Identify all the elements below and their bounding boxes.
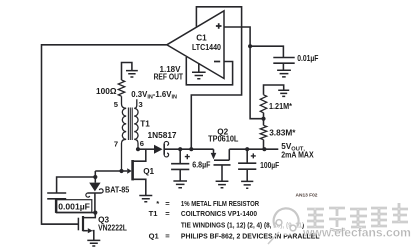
svg-text:www.elecfans.com: www.elecfans.com (302, 226, 411, 240)
svg-text:=: = (165, 209, 170, 218)
svg-text:3.83M*: 3.83M* (269, 129, 296, 138)
svg-text:5VOUT,: 5VOUT, (281, 142, 305, 152)
svg-text:LTC1440: LTC1440 (192, 43, 221, 53)
svg-text:BAT-85: BAT-85 (105, 185, 130, 194)
svg-text:VN2222L: VN2222L (98, 223, 127, 233)
svg-text:7: 7 (114, 140, 118, 149)
svg-text:0.001µF: 0.001µF (58, 202, 90, 212)
svg-text:1N5817: 1N5817 (148, 131, 178, 140)
svg-text:Q1: Q1 (143, 167, 154, 176)
svg-text:PHILIPS BF-862, 2 DEVICES IN P: PHILIPS BF-862, 2 DEVICES IN PARALLEL (181, 231, 320, 240)
svg-text:AN13 F02: AN13 F02 (296, 192, 318, 197)
svg-text:1% METAL FILM RESISTOR: 1% METAL FILM RESISTOR (181, 200, 259, 208)
svg-text:Q1: Q1 (149, 232, 160, 241)
svg-text:0.3VIN-1.6VIN: 0.3VIN-1.6VIN (131, 90, 177, 101)
svg-text:100µF: 100µF (260, 160, 280, 170)
svg-text:REF OUT: REF OUT (154, 72, 184, 82)
svg-text:3: 3 (139, 100, 143, 109)
svg-text:=: = (165, 199, 170, 208)
svg-text:5: 5 (114, 100, 119, 109)
svg-text:=: = (165, 232, 170, 241)
svg-text:T1: T1 (149, 209, 159, 218)
svg-text:T1: T1 (140, 119, 150, 128)
svg-text:*: * (156, 199, 159, 208)
svg-text:6: 6 (140, 139, 144, 148)
svg-text:0.01µF: 0.01µF (297, 53, 319, 63)
svg-text:COILTRONICS VP1-1400: COILTRONICS VP1-1400 (181, 210, 257, 219)
svg-text:100Ω: 100Ω (96, 87, 117, 96)
svg-text:6.8µF: 6.8µF (192, 160, 211, 170)
svg-text:TP0610L: TP0610L (208, 134, 239, 143)
svg-text:1.21M*: 1.21M* (269, 101, 292, 110)
svg-text:C1: C1 (196, 34, 207, 43)
